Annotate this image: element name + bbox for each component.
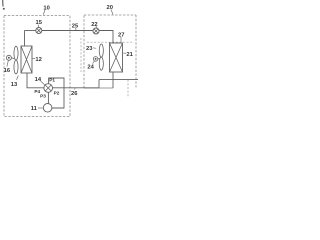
leader 1 (cut label top-left)	[2, 0, 4, 7]
leader 25	[75, 28, 77, 30]
svg-text:P1: P1	[49, 78, 55, 83]
wire: compressor discharge loop to P1	[49, 78, 64, 108]
leader 26	[74, 88, 77, 89]
fan 23	[99, 44, 103, 70]
svg-text:22: 22	[91, 22, 97, 28]
fan motor 24	[93, 57, 99, 62]
svg-text:24: 24	[87, 64, 94, 70]
leader 20	[111, 10, 113, 15]
svg-text:21: 21	[126, 52, 133, 58]
leader lines	[3, 0, 127, 108]
svg-text:10: 10	[43, 5, 49, 11]
wire: liquid pipe 25 to indoor valve	[42, 30, 93, 32]
wire: hx12 top port	[24, 31, 26, 47]
leader 24	[93, 61, 95, 64]
fan motor 16	[6, 55, 14, 60]
svg-text:16: 16	[4, 68, 11, 74]
svg-text:25: 25	[72, 23, 79, 29]
wire: hx12 bottom to valve P4	[27, 73, 44, 88]
svg-text:20: 20	[107, 5, 113, 11]
leader 15	[37, 25, 39, 28]
leader 16	[7, 61, 8, 67]
heat exchanger 12	[21, 46, 32, 73]
wire: hx21 bottom port	[112, 72, 114, 88]
inner dashed partition lines	[81, 38, 134, 97]
svg-text:14: 14	[35, 77, 42, 83]
leader 22	[95, 26, 98, 28]
svg-text:P3: P3	[40, 94, 46, 99]
svg-text:P2: P2	[54, 90, 60, 95]
bottom boundary segment of indoor box	[84, 87, 113, 89]
leader 23	[93, 47, 96, 50]
leader 10	[43, 10, 45, 15]
svg-text:23: 23	[86, 46, 93, 52]
svg-text:12: 12	[35, 57, 41, 63]
leader 13	[17, 76, 19, 80]
leader 14	[41, 81, 45, 85]
wire: valve22 to hx21 top	[99, 31, 113, 44]
svg-text:13: 13	[11, 82, 18, 88]
wire: indoor horizontal run	[99, 79, 138, 81]
outdoor unit box 10 (dashed)	[4, 16, 70, 117]
leader 27	[120, 37, 122, 42]
svg-text:27: 27	[118, 32, 124, 38]
indoor unit box 20 (dashed, open bottom-right)	[84, 15, 136, 88]
svg-text:26: 26	[71, 91, 78, 97]
fan 13	[14, 46, 18, 74]
wire: gas pipe 26, valve P2 to indoor	[53, 87, 100, 89]
expansion valve 15	[36, 28, 42, 34]
svg-text:15: 15	[36, 20, 43, 26]
wire: valve P3 to compressor suction	[47, 92, 49, 104]
leader 21	[123, 52, 126, 54]
leader 12	[32, 58, 35, 60]
indoor valve 22	[93, 28, 99, 34]
four-way valve 14	[44, 84, 53, 93]
svg-text:11: 11	[31, 106, 38, 112]
wire: indoor jog up	[98, 80, 100, 88]
compressor 11	[43, 104, 52, 113]
wire: liquid pipe 25 left segment	[25, 30, 36, 32]
leader 11	[38, 107, 43, 109]
heat exchanger 21	[110, 43, 123, 72]
dot of leader 1	[3, 8, 5, 10]
